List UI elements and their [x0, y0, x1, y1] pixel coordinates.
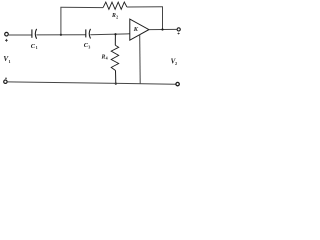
resistor R4	[111, 34, 119, 83]
wire feedback right vertical	[162, 7, 164, 30]
op-amp K	[130, 19, 149, 40]
capacitor C1	[32, 29, 37, 39]
bottom rail wire	[8, 82, 176, 84]
output terminal (V2 +)	[177, 28, 180, 35]
svg-text:K: K	[133, 26, 139, 33]
wire top left to R2	[60, 6, 103, 8]
wire feedback left vertical	[60, 7, 62, 34]
svg-text:2: 2	[175, 61, 177, 66]
resistor R2	[103, 2, 127, 9]
svg-text:3: 3	[88, 44, 90, 49]
capacitor C3	[86, 29, 91, 39]
bottom-right terminal	[176, 82, 179, 85]
node junction dot R4 bottom	[115, 83, 117, 85]
wire op-amp output	[149, 28, 177, 30]
svg-text:4: 4	[106, 56, 108, 61]
wire R2 to right corner	[127, 6, 163, 8]
node junction dot A	[60, 34, 62, 36]
input terminal (V1 +)	[5, 32, 9, 41]
node junction dot output	[161, 28, 163, 30]
bottom-left terminal	[4, 78, 7, 83]
wire C1 to C3	[36, 34, 85, 36]
wire C3 to op-amp	[90, 33, 130, 36]
wire op-amp common to ground rail	[139, 35, 142, 84]
node junction dot R4 top	[114, 33, 116, 35]
svg-text:1: 1	[9, 59, 11, 64]
svg-text:1: 1	[36, 45, 38, 50]
svg-text:2: 2	[116, 14, 118, 19]
wire input to C1	[9, 34, 32, 36]
